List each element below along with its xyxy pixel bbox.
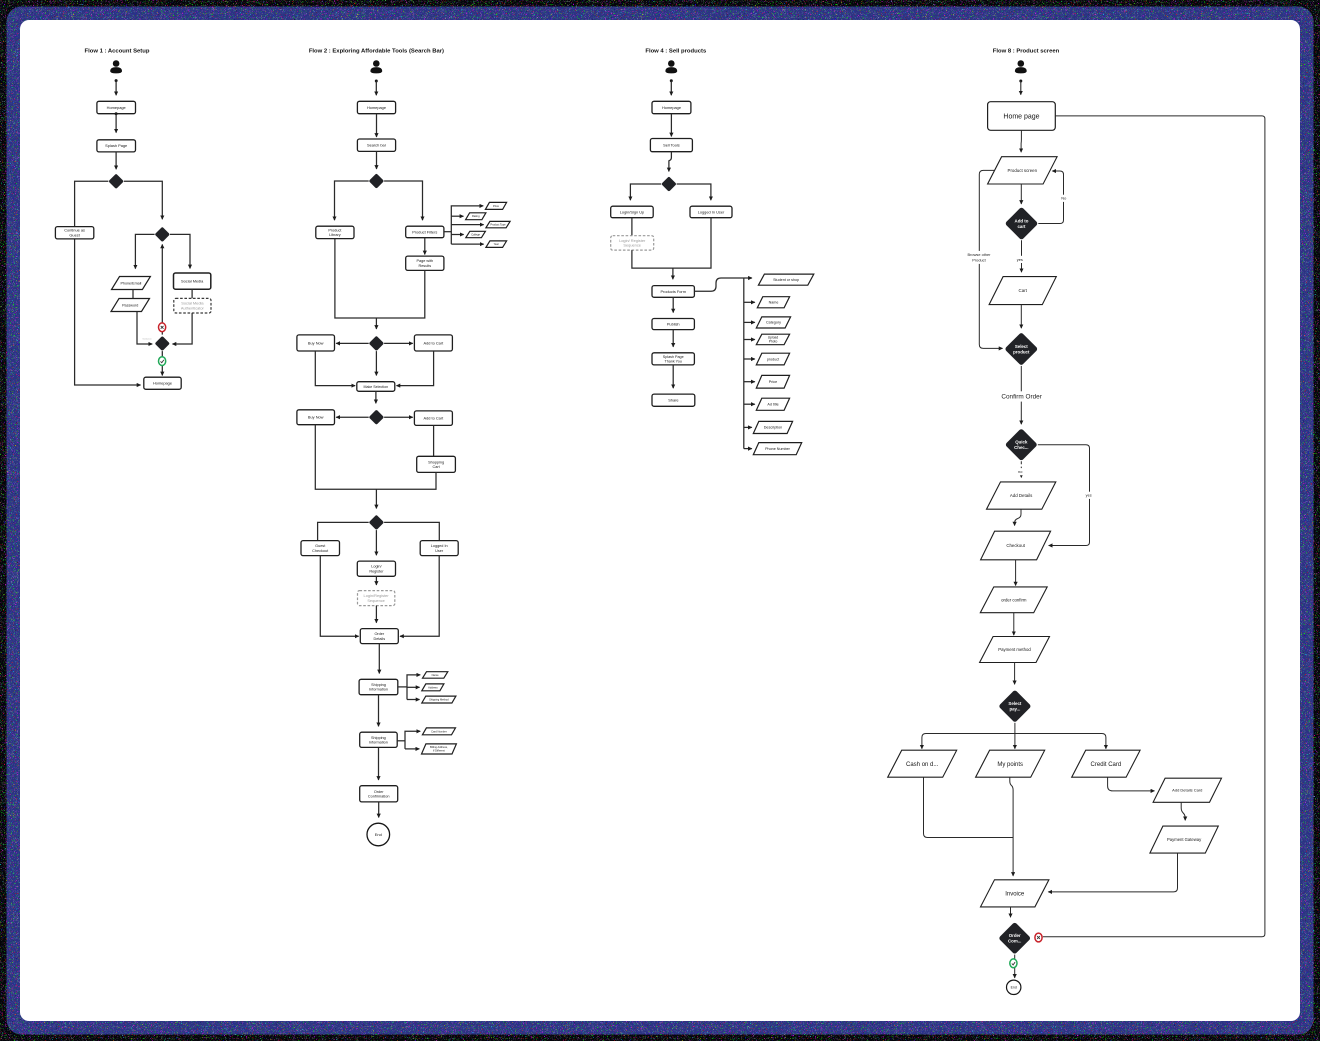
svg-text:order confirm: order confirm bbox=[1001, 597, 1027, 602]
svg-text:Splash Page: Splash Page bbox=[663, 355, 684, 359]
svg-text:Sequence: Sequence bbox=[623, 243, 641, 248]
svg-text:Flow 1 : Account Setup: Flow 1 : Account Setup bbox=[85, 49, 150, 55]
svg-text:Register: Register bbox=[369, 569, 384, 573]
svg-text:Quick: Quick bbox=[1015, 440, 1028, 445]
svg-text:College: College bbox=[471, 232, 480, 236]
svg-text:Price: Price bbox=[769, 380, 777, 384]
svg-text:Password: Password bbox=[122, 303, 138, 307]
svg-text:Name: Name bbox=[769, 301, 779, 305]
svg-text:Product screen: Product screen bbox=[1008, 168, 1038, 173]
svg-text:Flow 8 : Product screen: Flow 8 : Product screen bbox=[993, 49, 1060, 55]
svg-text:Results: Results bbox=[418, 264, 431, 268]
svg-text:Name: Name bbox=[432, 673, 439, 677]
svg-text:Description: Description bbox=[764, 426, 782, 430]
svg-text:Price: Price bbox=[493, 204, 499, 208]
svg-text:Credit Card: Credit Card bbox=[1091, 762, 1122, 768]
svg-text:Splash Page: Splash Page bbox=[105, 143, 127, 148]
svg-text:Add to Cart: Add to Cart bbox=[424, 416, 445, 421]
svg-text:Product Filters: Product Filters bbox=[412, 229, 437, 234]
svg-text:Phone Number: Phone Number bbox=[765, 447, 791, 451]
svg-text:Com...: Com... bbox=[1008, 939, 1021, 944]
svg-text:Product: Product bbox=[328, 228, 342, 232]
svg-text:Add Details: Add Details bbox=[1010, 493, 1033, 498]
svg-text:Confirmation: Confirmation bbox=[368, 795, 390, 799]
svg-text:Publish: Publish bbox=[667, 321, 680, 326]
svg-text:Flow 4 : Sell products: Flow 4 : Sell products bbox=[645, 49, 707, 55]
svg-text:Social Media: Social Media bbox=[181, 279, 204, 284]
svg-text:Thank You: Thank You bbox=[664, 360, 681, 364]
svg-text:Chec...: Chec... bbox=[1014, 445, 1028, 450]
svg-text:Share: Share bbox=[668, 398, 678, 403]
svg-text:Invoice: Invoice bbox=[1005, 891, 1025, 897]
svg-text:Sequence: Sequence bbox=[367, 598, 385, 603]
svg-text:Homepage: Homepage bbox=[107, 105, 126, 110]
svg-text:Payment Gateway: Payment Gateway bbox=[1167, 837, 1202, 842]
svg-text:Login/: Login/ bbox=[371, 565, 382, 569]
svg-text:Buy Now: Buy Now bbox=[308, 340, 324, 345]
svg-text:Logged In User: Logged In User bbox=[698, 209, 725, 214]
svg-text:Authenticator: Authenticator bbox=[181, 306, 205, 311]
svg-text:Search bar: Search bar bbox=[367, 143, 387, 148]
svg-text:User: User bbox=[435, 549, 444, 553]
svg-text:Confirm Order: Confirm Order bbox=[1001, 394, 1042, 401]
svg-text:Add Details Card: Add Details Card bbox=[1172, 788, 1202, 793]
svg-text:Product: Product bbox=[972, 258, 986, 263]
svg-text:Order: Order bbox=[374, 632, 384, 636]
svg-text:Homepage: Homepage bbox=[153, 381, 172, 386]
svg-text:Photo: Photo bbox=[769, 340, 778, 344]
svg-text:Rating: Rating bbox=[472, 214, 480, 218]
svg-text:Select: Select bbox=[1015, 344, 1028, 349]
svg-text:Card Number: Card Number bbox=[431, 729, 447, 733]
svg-text:cart: cart bbox=[1017, 224, 1026, 229]
svg-text:Address: Address bbox=[428, 685, 438, 689]
svg-text:Homepage: Homepage bbox=[662, 105, 681, 110]
svg-text:Add to Cart: Add to Cart bbox=[424, 340, 445, 345]
svg-text:Student or shop: Student or shop bbox=[773, 278, 799, 282]
svg-text:Checkout: Checkout bbox=[1006, 543, 1025, 548]
svg-text:Select: Select bbox=[1008, 701, 1021, 706]
svg-text:Year: Year bbox=[494, 242, 499, 246]
svg-text:End: End bbox=[1011, 986, 1017, 990]
svg-text:Shopping: Shopping bbox=[428, 460, 444, 464]
svg-text:Flow 2 : Exploring Affordable: Flow 2 : Exploring Affordable Tools (Sea… bbox=[309, 49, 444, 55]
svg-text:yes: yes bbox=[1086, 493, 1092, 498]
svg-text:Cart: Cart bbox=[433, 465, 441, 469]
svg-text:Guest: Guest bbox=[69, 233, 80, 238]
svg-text:Page with: Page with bbox=[416, 259, 433, 263]
svg-text:Information: Information bbox=[369, 741, 388, 745]
svg-text:Category: Category bbox=[766, 321, 781, 325]
svg-text:Cart: Cart bbox=[1019, 288, 1028, 293]
svg-text:Phone/Email: Phone/Email bbox=[120, 281, 141, 285]
svg-text:product: product bbox=[767, 357, 779, 361]
svg-text:Payment method: Payment method bbox=[998, 647, 1031, 652]
svg-text:Product Type: Product Type bbox=[490, 223, 506, 227]
svg-text:Make Selection: Make Selection bbox=[364, 385, 389, 389]
svg-text:pay...: pay... bbox=[1009, 707, 1020, 712]
svg-text:Logged In: Logged In bbox=[431, 544, 448, 548]
svg-text:Products Form: Products Form bbox=[660, 289, 686, 294]
svg-text:My points: My points bbox=[997, 762, 1023, 768]
svg-text:Guest: Guest bbox=[315, 544, 326, 548]
svg-text:Home page: Home page bbox=[1003, 114, 1039, 121]
svg-text:Shipping Method: Shipping Method bbox=[429, 698, 449, 702]
svg-text:yes: yes bbox=[1017, 257, 1023, 262]
svg-text:Information: Information bbox=[369, 688, 388, 692]
svg-text:Shipping: Shipping bbox=[371, 683, 386, 687]
svg-text:Buy Now: Buy Now bbox=[308, 415, 324, 420]
svg-text:Sell Tools: Sell Tools bbox=[663, 143, 680, 148]
svg-text:Cash on d...: Cash on d... bbox=[906, 762, 939, 768]
svg-text:Browse other: Browse other bbox=[968, 252, 992, 257]
svg-text:No: No bbox=[1061, 196, 1066, 201]
svg-text:End: End bbox=[375, 832, 382, 837]
svg-text:no: no bbox=[1018, 469, 1022, 474]
svg-text:Details: Details bbox=[373, 637, 385, 641]
svg-text:Order: Order bbox=[374, 790, 384, 794]
svg-text:Login/Sign Up: Login/Sign Up bbox=[620, 209, 644, 214]
svg-text:Checkout: Checkout bbox=[312, 549, 329, 553]
svg-text:product: product bbox=[1013, 349, 1030, 354]
svg-text:Shipping: Shipping bbox=[371, 736, 386, 740]
svg-text:If Different: If Different bbox=[433, 749, 445, 753]
svg-text:Order: Order bbox=[1009, 933, 1021, 938]
svg-text:Validation: Validation bbox=[142, 338, 152, 341]
svg-text:Library: Library bbox=[329, 233, 341, 237]
svg-text:Homepage: Homepage bbox=[367, 105, 386, 110]
svg-text:Add to: Add to bbox=[1015, 218, 1029, 223]
svg-text:Ad title: Ad title bbox=[767, 403, 778, 407]
